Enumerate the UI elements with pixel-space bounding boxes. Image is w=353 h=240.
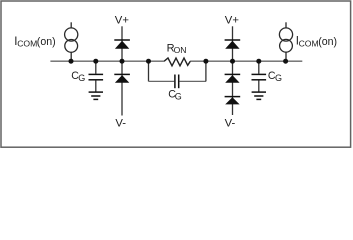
- svg-text:(on): (on): [37, 36, 56, 48]
- resistor RON: [164, 58, 190, 66]
- diode D5 right (series pair to V-, second): [225, 97, 241, 105]
- label RON: [167, 43, 187, 55]
- node dot: rail / RC branch right: [203, 59, 208, 64]
- wire: main horizontal rail left segment: [50, 60, 164, 62]
- node dot: rail / CG right: [256, 59, 261, 64]
- svg-text:G: G: [78, 73, 85, 83]
- svg-text:V+: V+: [115, 15, 130, 27]
- diode D2 left (V- to rail): [114, 61, 130, 115]
- node dot: rail / current source left: [69, 59, 74, 64]
- svg-text:ON: ON: [174, 45, 187, 55]
- capacitor CG right (shunt to ground): [252, 61, 267, 91]
- svg-text:V-: V-: [225, 118, 236, 130]
- diode D3 right (rail to V+): [225, 26, 241, 61]
- svg-text:G: G: [275, 73, 282, 83]
- ground right: [252, 92, 266, 99]
- diode D1 left (rail to V+): [114, 26, 130, 61]
- current source I_COM(on) right: [279, 22, 292, 61]
- diode D4 right (series pair to V-, first): [225, 61, 241, 115]
- node dot: rail / diodes right: [230, 59, 235, 64]
- svg-text:(on): (on): [318, 36, 337, 48]
- label ICOM(on) left: [14, 36, 55, 49]
- capacitor CG left (shunt to ground): [89, 61, 104, 91]
- svg-text:V-: V-: [115, 118, 126, 130]
- wire: main horizontal rail right segment: [190, 60, 302, 62]
- svg-text:G: G: [175, 91, 182, 101]
- node dot: rail / CG left: [93, 59, 98, 64]
- svg-text:COM: COM: [299, 38, 319, 48]
- node dot: rail / diodes left: [120, 59, 125, 64]
- label CG middle: [168, 89, 182, 102]
- ground left: [89, 92, 103, 99]
- label CG left: [71, 70, 85, 83]
- label ICOM(on) right: [296, 36, 337, 49]
- node dot: rail / current source right: [283, 59, 288, 64]
- svg-text:COM: COM: [17, 39, 37, 49]
- label CG right: [268, 70, 282, 83]
- current source I_COM(on) left: [65, 22, 78, 61]
- svg-text:V+: V+: [225, 15, 240, 27]
- capacitor CG middle (parallel with RON): [149, 61, 206, 88]
- node dot: rail / RC branch left: [146, 59, 151, 64]
